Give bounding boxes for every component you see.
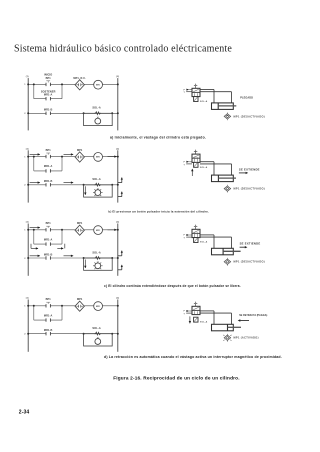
- svg-text:b) El presionar un botón pulsa: b) El presionar un botón pulsador inicia…: [108, 209, 209, 213]
- svg-text:Sistema hidráulico básico cont: Sistema hidráulico básico controlado elé…: [14, 44, 232, 55]
- svg-text:(2): (2): [116, 76, 119, 78]
- svg-text:MP1, R.C.: MP1, R.C.: [73, 77, 86, 80]
- svg-text:SOL-A: SOL-A: [200, 240, 208, 243]
- svg-text:MR1-A: MR1-A: [44, 314, 53, 317]
- svg-text:MP1: MP1: [77, 149, 83, 152]
- svg-text:MR1-A: MR1-A: [44, 165, 53, 168]
- svg-text:SE EXTIENDE: SE EXTIENDE: [239, 168, 260, 172]
- svg-text:SOL-A: SOL-A: [92, 327, 100, 330]
- svg-text:MR1: MR1: [96, 306, 100, 308]
- svg-text:MP1 (ACTIVADO): MP1 (ACTIVADO): [234, 337, 259, 340]
- svg-text:MR1-B: MR1-B: [44, 180, 53, 183]
- svg-text:2: 2: [24, 258, 25, 260]
- svg-text:MR1: MR1: [96, 230, 100, 232]
- svg-text:2: 2: [24, 334, 25, 336]
- svg-text:(1): (1): [26, 222, 29, 224]
- svg-text:(2): (2): [116, 298, 119, 300]
- svg-text:MR1-B: MR1-B: [44, 329, 53, 332]
- svg-text:1: 1: [24, 306, 25, 308]
- svg-text:MR1: MR1: [96, 85, 100, 87]
- svg-text:SOL-A: SOL-A: [200, 166, 208, 169]
- svg-text:BP1: BP1: [46, 77, 52, 80]
- svg-text:PLEGADO: PLEGADO: [240, 96, 253, 99]
- svg-text:1: 1: [24, 84, 25, 86]
- svg-text:(2): (2): [116, 222, 119, 224]
- svg-text:SE EXTIENDE: SE EXTIENDE: [240, 242, 261, 246]
- svg-text:a) Inicialmente, el vástago de: a) Inicialmente, el vástago del cilindro…: [110, 136, 206, 140]
- svg-text:SE RETRACTA (PLIEGA): SE RETRACTA (PLIEGA): [239, 314, 267, 317]
- svg-text:SOL-A: SOL-A: [92, 107, 100, 110]
- svg-text:MP1 (DESACTIVADO): MP1 (DESACTIVADO): [234, 188, 265, 191]
- svg-text:BP1: BP1: [46, 222, 52, 225]
- svg-text:(1): (1): [26, 298, 29, 300]
- svg-text:(1): (1): [26, 76, 29, 78]
- svg-text:MR1-B: MR1-B: [44, 253, 53, 256]
- svg-text:1: 1: [24, 156, 25, 158]
- svg-text:1: 1: [24, 230, 25, 232]
- svg-text:MR1: MR1: [96, 157, 100, 159]
- svg-text:SOL-A: SOL-A: [92, 178, 100, 181]
- svg-text:2: 2: [24, 185, 25, 187]
- svg-text:MP1 (DESACTIVADO): MP1 (DESACTIVADO): [234, 115, 265, 118]
- svg-text:MR1-B: MR1-B: [44, 109, 53, 112]
- svg-text:(2): (2): [116, 148, 119, 150]
- svg-text:d) La retracción es automática: d) La retracción es automática cuando el…: [104, 355, 282, 359]
- svg-text:MP1: MP1: [77, 298, 83, 301]
- svg-text:SOL-A: SOL-A: [200, 321, 208, 324]
- svg-text:2: 2: [24, 113, 25, 115]
- svg-text:(1): (1): [26, 148, 29, 150]
- svg-text:c) El cilindro continúa extend: c) El cilindro continúa extendiéndose de…: [104, 284, 241, 288]
- svg-text:2-34: 2-34: [19, 410, 30, 416]
- svg-text:BP1: BP1: [46, 149, 52, 152]
- svg-text:MP1 (DESACTIVADO): MP1 (DESACTIVADO): [234, 261, 265, 264]
- svg-text:MR1-A: MR1-A: [44, 94, 53, 97]
- svg-text:Figura 2-16. Reciprocidad de u: Figura 2-16. Reciprocidad de un ciclo de…: [113, 376, 240, 381]
- svg-text:BP1: BP1: [46, 298, 52, 301]
- svg-text:SOL-A: SOL-A: [92, 251, 100, 254]
- svg-text:MR1-A: MR1-A: [44, 238, 53, 241]
- svg-text:SOL-A: SOL-A: [200, 100, 208, 103]
- svg-text:MP1: MP1: [77, 222, 83, 225]
